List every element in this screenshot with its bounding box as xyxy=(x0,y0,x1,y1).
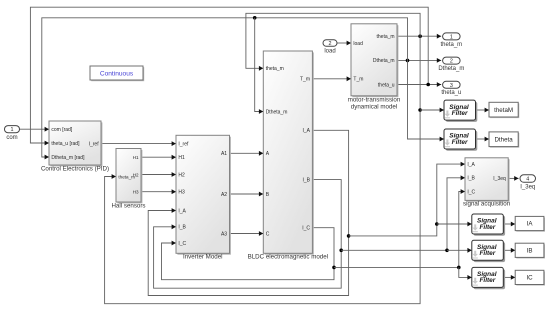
display IA xyxy=(515,216,545,231)
arrowhead signal acquisition I_B input xyxy=(461,175,465,180)
wire A1 to BLDC A xyxy=(230,152,264,154)
wire I_A to signal acquisition xyxy=(349,164,465,236)
junction theta_u branch xyxy=(426,83,430,87)
svg-text:signal acquisition: signal acquisition xyxy=(463,201,511,208)
wire H1 to Inverter xyxy=(141,156,176,158)
svg-text:2: 2 xyxy=(329,41,332,47)
svg-text:Continuous: Continuous xyxy=(100,71,134,78)
junction I_B branch xyxy=(339,249,343,253)
svg-text:A2: A2 xyxy=(221,192,227,198)
svg-text:I_B: I_B xyxy=(302,177,310,183)
svg-text:I_C: I_C xyxy=(178,241,186,247)
junction I_B filter branch xyxy=(445,249,449,253)
arrowhead BLDC theta_m input xyxy=(259,66,263,71)
svg-text:Inverter Model: Inverter Model xyxy=(183,254,223,261)
junction I_C filter branch xyxy=(457,266,461,270)
svg-text:Control Electronics (PID): Control Electronics (PID) xyxy=(41,165,109,172)
wire Signal Filter IC to display xyxy=(503,276,515,278)
block Signal Filter (thetaM) xyxy=(444,100,477,122)
svg-text:load: load xyxy=(324,49,335,55)
svg-text:load: load xyxy=(353,41,363,47)
arrowhead display thetaM input xyxy=(485,108,489,113)
svg-text:4: 4 xyxy=(526,177,529,183)
arrowhead Inverter H2 input xyxy=(172,172,176,177)
junction I_A branch xyxy=(347,234,351,238)
arrowhead Control Electronics Dtheta_m input xyxy=(45,155,49,160)
arrowhead signal acquisition I_C input xyxy=(461,189,465,194)
arrowhead Control Electronics theta_u input xyxy=(45,141,49,146)
block Control Electronics (PID) xyxy=(41,121,109,172)
wire Dtheta_m feedback loop xyxy=(42,18,408,157)
svg-text:IA: IA xyxy=(527,221,534,228)
svg-text:Filter: Filter xyxy=(452,110,468,117)
svg-text:theta_m: theta_m xyxy=(266,66,284,72)
junction theta_m filter branch xyxy=(418,108,422,112)
port output 1 theta_m xyxy=(441,33,463,48)
svg-text:Dtheta_m [rad]: Dtheta_m [rad] xyxy=(51,155,85,161)
junction theta_m branch xyxy=(418,34,422,38)
arrowhead BLDC B input xyxy=(259,192,263,197)
wire Dtheta_m feedback to BLDC xyxy=(255,18,264,112)
svg-text:I_C: I_C xyxy=(467,189,475,195)
block BLDC electromagnetic model xyxy=(248,51,328,261)
arrowhead BLDC C input xyxy=(259,231,263,236)
arrowhead Signal Filter thetaM input xyxy=(440,108,444,113)
wire Signal Filter thetaM to display xyxy=(476,109,490,111)
svg-text:BLDC electromagnetic model: BLDC electromagnetic model xyxy=(248,254,328,261)
arrowhead Inverter I_B input xyxy=(172,224,176,229)
wire theta_m feedback to BLDC xyxy=(246,13,420,68)
block Continuous (solver annotation) xyxy=(90,66,144,81)
wire A3 to BLDC C xyxy=(230,233,264,235)
port output 4 I_3eq xyxy=(520,175,536,191)
arrowhead Inverter H1 input xyxy=(172,155,176,160)
arrowhead port 2 input xyxy=(437,58,441,63)
arrowhead Inverter I_C input xyxy=(172,241,176,246)
svg-text:Filter: Filter xyxy=(479,250,495,257)
wire I_3eq to port 4 xyxy=(508,177,518,179)
arrowhead display IC input xyxy=(511,275,515,280)
wire Dtheta_m to Signal Filter Dtheta xyxy=(408,60,445,139)
svg-text:IB: IB xyxy=(527,248,533,255)
arrowhead load input xyxy=(347,41,351,46)
svg-text:theta_m: theta_m xyxy=(377,34,395,40)
wire I_B to Signal Filter IB xyxy=(447,249,472,251)
arrowhead Inverter I_ref input xyxy=(172,141,176,146)
svg-text:Filter: Filter xyxy=(479,224,495,231)
display Dtheta xyxy=(489,132,519,148)
svg-text:Hall sensors: Hall sensors xyxy=(111,203,145,210)
svg-text:2: 2 xyxy=(450,59,453,65)
svg-text:T_m: T_m xyxy=(353,77,363,83)
arrowhead Inverter I_A input xyxy=(172,208,176,213)
wire I_ref to Inverter xyxy=(101,143,176,145)
svg-text:Filter: Filter xyxy=(452,139,468,146)
svg-text:I_3eq: I_3eq xyxy=(520,185,535,191)
junction I_A filter branch xyxy=(435,222,439,226)
block Signal Filter (IC) xyxy=(472,267,505,289)
wire Signal Filter IB to display xyxy=(503,249,515,251)
port output 2 Dtheta_m xyxy=(438,57,464,72)
svg-text:A1: A1 xyxy=(221,151,227,157)
display IC xyxy=(515,270,545,285)
arrowhead com input xyxy=(45,127,49,132)
wire com to Control Electronics xyxy=(20,128,50,130)
arrowhead display IA input xyxy=(511,222,515,227)
block Signal Filter (IA) xyxy=(472,214,505,236)
svg-text:H3: H3 xyxy=(133,190,139,195)
arrowhead BLDC A input xyxy=(259,151,263,156)
svg-text:I_A: I_A xyxy=(178,208,186,214)
wire H3 to Inverter xyxy=(141,191,176,193)
wire A2 to BLDC B xyxy=(230,193,264,195)
arrowhead T_m input xyxy=(347,76,351,81)
wire load to motor-transmission xyxy=(337,42,351,44)
wire I_C feedback to Inverter xyxy=(162,228,335,280)
svg-text:com: com xyxy=(6,135,17,141)
arrowhead signal acquisition I_A input xyxy=(461,162,465,167)
svg-text:H1: H1 xyxy=(133,155,139,160)
arrowhead port 1 input xyxy=(437,34,441,39)
svg-text:I_3eq: I_3eq xyxy=(493,176,506,182)
wire theta_m output to port 1 xyxy=(397,35,441,37)
svg-text:1: 1 xyxy=(450,34,453,40)
wire theta_u feedback loop xyxy=(30,7,428,143)
svg-text:Dtheta_m: Dtheta_m xyxy=(373,58,395,64)
block Inverter Model xyxy=(176,135,231,260)
svg-text:I_B: I_B xyxy=(467,176,475,182)
svg-text:com [rad]: com [rad] xyxy=(51,127,72,133)
block Signal Filter (Dtheta) xyxy=(444,129,477,151)
svg-text:H2: H2 xyxy=(133,172,139,177)
svg-text:Dtheta: Dtheta xyxy=(494,136,513,143)
svg-text:thetaM: thetaM xyxy=(494,107,513,114)
wire Dtheta_m output to port 2 xyxy=(397,59,441,61)
arrowhead display Dtheta input xyxy=(485,137,489,142)
arrowhead Inverter H3 input xyxy=(172,189,176,194)
port input 2 load xyxy=(323,40,337,55)
svg-text:H1: H1 xyxy=(178,155,185,161)
svg-text:theta_u [rad]: theta_u [rad] xyxy=(51,141,80,147)
svg-text:Dtheta_m: Dtheta_m xyxy=(266,109,288,115)
arrowhead port 3 input xyxy=(437,82,441,87)
svg-text:T_m: T_m xyxy=(300,77,310,83)
svg-text:H3: H3 xyxy=(178,190,185,196)
arrowhead Signal Filter IB input xyxy=(467,248,471,253)
svg-text:I_C: I_C xyxy=(302,226,310,232)
arrowhead Signal Filter IC input xyxy=(467,275,471,280)
svg-text:I_A: I_A xyxy=(467,162,475,168)
svg-text:I_B: I_B xyxy=(178,225,186,231)
wire theta_m to Signal Filter thetaM xyxy=(420,109,444,111)
svg-text:theta_u: theta_u xyxy=(378,82,395,88)
wire I_C to signal acquisition xyxy=(334,192,465,268)
svg-text:motor-transmission: motor-transmission xyxy=(348,96,401,103)
svg-text:3: 3 xyxy=(450,83,453,89)
svg-text:IC: IC xyxy=(526,275,533,282)
junction Dtheta_m branch xyxy=(406,59,410,63)
block motor-transmission dynamical model xyxy=(348,24,401,111)
wire I_A feedback to Inverter xyxy=(148,130,348,295)
svg-text:Dtheta_m: Dtheta_m xyxy=(438,66,464,72)
block Signal Filter (IB) xyxy=(472,240,505,262)
svg-text:A3: A3 xyxy=(221,231,227,237)
wire I_B to signal acquisition xyxy=(341,178,465,251)
svg-text:C: C xyxy=(266,231,270,237)
svg-text:theta_u: theta_u xyxy=(441,90,461,96)
wire T_m to motor-transmission xyxy=(312,78,351,80)
block Hall sensors xyxy=(111,149,145,210)
arrowhead Hall sensors theta_m input xyxy=(112,174,116,179)
arrowhead Signal Filter Dtheta input xyxy=(440,137,444,142)
wire I_B feedback to Inverter xyxy=(154,180,342,289)
junction Dtheta_m BLDC branch xyxy=(253,16,257,20)
display thetaM xyxy=(489,102,519,118)
arrowhead port 4 input xyxy=(514,176,518,181)
svg-text:1: 1 xyxy=(11,127,14,133)
display IB xyxy=(515,243,545,258)
wire theta_u output to port 3 xyxy=(397,84,441,86)
block signal acquisition xyxy=(463,158,511,208)
wire Signal Filter IA to display xyxy=(503,223,515,225)
wire I_A to Signal Filter IA xyxy=(437,223,472,225)
wire Signal Filter Dtheta to display xyxy=(476,138,490,140)
svg-text:I_A: I_A xyxy=(302,128,310,134)
wire H2 to Inverter xyxy=(141,174,176,176)
wire theta_m feedback to Hall sensors xyxy=(105,36,421,304)
port output 3 theta_u xyxy=(441,81,461,96)
port input 1 com xyxy=(5,126,20,141)
svg-text:theta_m: theta_m xyxy=(441,42,463,48)
svg-text:I_ref: I_ref xyxy=(89,141,100,147)
wire I_C to Signal Filter IC xyxy=(459,267,472,277)
arrowhead BLDC Dtheta_m input xyxy=(259,109,263,114)
svg-text:dynamical model: dynamical model xyxy=(351,103,397,110)
svg-text:I_ref: I_ref xyxy=(178,141,189,147)
arrowhead Signal Filter IA input xyxy=(467,222,471,227)
svg-text:H2: H2 xyxy=(178,172,185,178)
arrowhead display IB input xyxy=(511,248,515,253)
junction I_C branch xyxy=(332,266,336,270)
svg-text:Filter: Filter xyxy=(479,277,495,284)
